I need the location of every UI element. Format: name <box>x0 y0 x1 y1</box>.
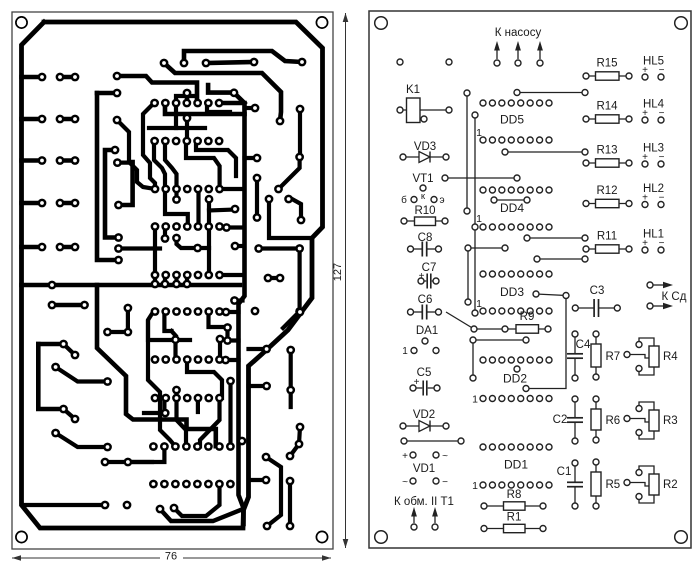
svg-text:+: + <box>402 451 408 462</box>
pad <box>172 307 181 316</box>
wire <box>421 280 426 282</box>
pad <box>222 223 231 232</box>
wire <box>446 312 474 329</box>
pad <box>172 394 181 403</box>
wire <box>629 419 649 423</box>
hole <box>593 503 599 509</box>
out arrow <box>653 305 663 307</box>
wire <box>298 249 302 312</box>
mounting hole <box>16 17 27 28</box>
wire <box>176 96 196 103</box>
diode VD3 <box>419 152 430 163</box>
pad <box>161 99 170 108</box>
hole <box>518 444 524 450</box>
pad <box>204 394 213 403</box>
pad <box>149 442 158 451</box>
wire <box>586 203 629 205</box>
hole <box>614 305 620 311</box>
mounting hole <box>316 531 327 542</box>
hole <box>470 375 476 381</box>
hole <box>434 385 440 391</box>
pad <box>262 453 271 462</box>
hole <box>527 224 533 230</box>
pad <box>215 222 224 231</box>
pad <box>204 480 213 489</box>
hole <box>626 246 632 252</box>
hole <box>636 494 642 500</box>
hole <box>546 444 552 450</box>
hole <box>537 396 543 402</box>
svg-text:C2: C2 <box>553 414 568 426</box>
wire <box>228 381 232 446</box>
pad <box>296 105 305 114</box>
hole <box>421 116 427 122</box>
hole <box>582 235 588 241</box>
svg-text:К Сд: К Сд <box>662 291 687 303</box>
hole <box>499 224 505 230</box>
out arrow <box>653 284 663 286</box>
pad <box>286 477 295 486</box>
pad <box>263 522 272 531</box>
pad <box>124 328 133 337</box>
wire <box>226 310 239 314</box>
hole <box>546 308 552 314</box>
svg-text:R7: R7 <box>606 351 621 363</box>
wire <box>292 199 301 220</box>
wire <box>174 103 178 128</box>
wire <box>108 308 128 332</box>
hole <box>436 309 442 315</box>
pad <box>276 117 285 126</box>
pad <box>71 351 80 360</box>
pad <box>274 185 283 194</box>
pad <box>56 156 65 165</box>
hole <box>433 452 439 458</box>
pad <box>262 476 271 485</box>
svg-text:C1: C1 <box>557 466 572 478</box>
pad <box>183 307 192 316</box>
hole <box>508 357 514 363</box>
hole <box>400 423 406 429</box>
hole <box>436 246 442 252</box>
pad <box>114 244 123 253</box>
pad <box>183 89 192 98</box>
wire <box>473 340 526 378</box>
pad <box>172 222 181 231</box>
wire <box>200 398 220 447</box>
hole <box>508 308 514 314</box>
hole <box>537 100 543 106</box>
pad <box>205 195 214 204</box>
hole <box>572 460 578 466</box>
pad <box>156 505 165 514</box>
hole <box>546 187 552 193</box>
wire <box>484 528 543 530</box>
pad <box>103 328 112 337</box>
wire <box>403 425 446 427</box>
wire <box>56 367 108 382</box>
pad <box>161 185 170 194</box>
svg-text:C8: C8 <box>418 232 433 244</box>
hole <box>642 117 648 123</box>
wire <box>249 384 267 388</box>
hole <box>572 503 578 509</box>
hole <box>537 224 543 230</box>
pad <box>38 243 47 252</box>
hole <box>636 366 642 372</box>
pad <box>171 335 180 344</box>
pad <box>111 146 120 155</box>
wire <box>505 151 585 153</box>
mounting hole <box>375 531 388 544</box>
hole <box>582 149 588 155</box>
pad <box>183 355 192 364</box>
wire <box>228 328 239 341</box>
pad <box>56 73 65 82</box>
wire <box>411 311 422 313</box>
hole <box>533 291 539 297</box>
wire <box>404 220 445 222</box>
svg-text:R6: R6 <box>606 415 621 427</box>
diode VD2 <box>419 421 430 432</box>
hole <box>527 308 533 314</box>
pad <box>295 307 304 316</box>
wire <box>60 75 75 80</box>
pad <box>182 99 191 108</box>
hole <box>658 117 664 123</box>
pad <box>161 307 170 316</box>
hole <box>410 478 416 484</box>
hole <box>636 406 642 412</box>
wire <box>64 344 76 355</box>
wire <box>162 398 166 413</box>
wire <box>574 334 576 353</box>
pad <box>251 307 260 316</box>
svg-text:DD5: DD5 <box>500 113 524 127</box>
pad <box>71 243 80 252</box>
wire <box>185 118 189 141</box>
hole <box>527 357 533 363</box>
pad <box>286 522 295 531</box>
pad <box>204 271 213 280</box>
hole <box>489 357 495 363</box>
hole <box>481 526 487 532</box>
pad <box>202 59 211 68</box>
pad <box>182 480 191 489</box>
pad <box>286 386 295 395</box>
hole <box>524 235 530 241</box>
svg-text:1: 1 <box>476 127 482 139</box>
pad <box>222 308 231 317</box>
pad <box>286 346 295 355</box>
svg-text:R2: R2 <box>663 479 678 491</box>
pad <box>215 442 224 451</box>
wire <box>288 481 292 526</box>
wire <box>575 307 593 309</box>
hole <box>410 385 416 391</box>
board drawing frame <box>12 12 333 549</box>
wire <box>165 141 177 189</box>
resistor R10 <box>415 217 436 226</box>
pad <box>204 222 213 231</box>
hole <box>593 331 599 337</box>
hole <box>518 100 524 106</box>
hole <box>508 100 514 106</box>
hole <box>527 396 533 402</box>
pad <box>114 233 123 242</box>
pad <box>183 280 192 289</box>
pad <box>262 345 271 354</box>
hole <box>546 137 552 143</box>
pad <box>151 280 160 289</box>
pad <box>182 442 191 451</box>
hole <box>546 357 552 363</box>
hole <box>514 366 520 372</box>
svg-text:б: б <box>401 194 407 206</box>
hole <box>480 137 486 143</box>
hole <box>489 187 495 193</box>
wire <box>163 227 167 239</box>
hole <box>624 352 630 358</box>
hole <box>480 444 486 450</box>
wire <box>177 398 187 446</box>
hole <box>489 482 495 488</box>
hole <box>593 374 599 380</box>
wire <box>289 350 293 407</box>
wire <box>639 402 654 410</box>
hole <box>502 149 508 155</box>
pad <box>231 205 240 214</box>
wire <box>119 246 161 250</box>
wire <box>38 342 63 347</box>
wire <box>117 120 155 189</box>
wire <box>466 93 468 211</box>
pad <box>160 59 169 68</box>
hole <box>420 185 426 191</box>
wire <box>255 178 259 218</box>
pad <box>215 185 224 194</box>
pad <box>151 307 160 316</box>
pad <box>161 222 170 231</box>
hole <box>514 175 520 181</box>
hole <box>499 308 505 314</box>
svg-text:1: 1 <box>476 298 482 310</box>
svg-text:127: 127 <box>332 263 344 281</box>
wire <box>586 118 629 120</box>
wire <box>22 283 241 288</box>
wire <box>574 359 576 378</box>
hole <box>480 187 486 193</box>
wire <box>467 248 469 302</box>
hole <box>472 310 478 316</box>
hole <box>499 357 505 363</box>
hole <box>472 112 478 118</box>
hole <box>400 154 406 160</box>
pad <box>194 355 203 364</box>
wire <box>184 51 302 63</box>
hole <box>491 197 497 203</box>
hole <box>499 482 505 488</box>
wire <box>22 75 43 80</box>
hole <box>480 271 486 277</box>
pad <box>171 442 180 451</box>
hole <box>636 470 642 476</box>
hole <box>524 197 530 203</box>
hole <box>583 73 589 79</box>
pad <box>215 271 224 280</box>
hole <box>472 224 478 230</box>
pad <box>215 480 224 489</box>
wire <box>22 158 43 163</box>
svg-text:DD4: DD4 <box>500 201 524 215</box>
hole <box>489 396 495 402</box>
pad <box>193 442 202 451</box>
pad <box>38 156 47 165</box>
svg-text:R4: R4 <box>663 351 678 363</box>
pad <box>151 185 160 194</box>
pad <box>161 234 170 243</box>
wire <box>154 141 165 189</box>
wire <box>639 495 654 503</box>
hole <box>593 396 599 402</box>
wire <box>268 276 280 280</box>
hole <box>480 396 486 402</box>
wire <box>269 199 312 238</box>
hole <box>527 444 533 450</box>
pad <box>38 73 47 82</box>
wire <box>209 312 228 328</box>
wire <box>143 103 155 189</box>
wire <box>174 275 178 284</box>
pad <box>113 158 122 167</box>
hole <box>433 478 439 484</box>
svg-text:R3: R3 <box>663 415 678 427</box>
pad <box>51 363 60 372</box>
hole <box>624 480 630 486</box>
wire <box>196 189 200 227</box>
wire <box>639 338 654 346</box>
pad <box>151 355 160 364</box>
pad <box>215 394 224 403</box>
wire <box>403 156 446 158</box>
pad <box>204 442 213 451</box>
wire <box>185 93 190 103</box>
wire <box>64 409 76 419</box>
pad <box>295 440 304 449</box>
hole <box>658 74 664 80</box>
hole <box>443 154 449 160</box>
hole <box>446 59 452 65</box>
svg-text:DD2: DD2 <box>503 372 527 386</box>
hole <box>514 90 520 96</box>
wire <box>468 247 505 249</box>
wire <box>153 275 157 284</box>
wire <box>209 210 235 211</box>
pad <box>265 195 274 204</box>
hole <box>411 524 417 530</box>
mounting hole <box>16 531 27 542</box>
svg-text:К насосу: К насосу <box>495 27 542 39</box>
mounting hole <box>675 531 688 544</box>
hole <box>480 482 486 488</box>
hole <box>508 444 514 450</box>
pad <box>226 480 235 489</box>
wire <box>220 273 242 277</box>
hole <box>636 342 642 348</box>
wire <box>290 427 300 456</box>
hole <box>537 60 543 66</box>
hole <box>583 201 589 207</box>
pad <box>230 296 239 305</box>
resistor R9 <box>516 325 539 334</box>
hole <box>397 107 403 113</box>
pad <box>194 185 203 194</box>
svg-text:R15: R15 <box>596 58 617 70</box>
wire <box>259 246 300 250</box>
svg-text:R8: R8 <box>507 489 522 501</box>
wire <box>105 150 119 238</box>
wire <box>427 248 438 250</box>
wire <box>245 156 258 160</box>
pad <box>172 386 181 395</box>
hole <box>515 60 521 66</box>
pad <box>149 480 158 489</box>
wire <box>595 334 597 377</box>
wire <box>163 275 167 284</box>
hole <box>537 271 543 277</box>
wire <box>117 76 197 99</box>
hole <box>523 386 529 392</box>
wire <box>413 387 422 389</box>
pad <box>183 222 192 231</box>
svg-text:R13: R13 <box>596 145 617 157</box>
hole <box>523 337 529 343</box>
svg-text:R14: R14 <box>596 101 618 113</box>
svg-text:~: ~ <box>442 451 448 462</box>
wire <box>574 463 576 482</box>
wire <box>52 303 85 308</box>
pad <box>161 394 170 403</box>
svg-text:−: − <box>442 477 448 488</box>
pad <box>51 429 60 438</box>
wire <box>174 189 178 200</box>
wire <box>153 227 157 276</box>
hole <box>572 331 578 337</box>
wire <box>172 331 176 336</box>
wire <box>234 93 245 103</box>
pad <box>160 480 169 489</box>
hole <box>471 326 477 332</box>
hole <box>465 245 471 251</box>
wire <box>484 505 543 507</box>
pad <box>151 271 160 280</box>
hole <box>465 299 471 305</box>
hole <box>499 100 505 106</box>
svg-text:VD1: VD1 <box>413 463 435 475</box>
svg-text:R5: R5 <box>606 479 621 491</box>
hole <box>443 423 449 429</box>
pad <box>276 274 285 283</box>
hole <box>508 137 514 143</box>
hole <box>489 308 495 314</box>
pump arrow <box>496 48 498 59</box>
hole <box>540 503 546 509</box>
pad <box>193 99 202 108</box>
wire <box>474 115 476 313</box>
wire <box>639 367 654 375</box>
pad <box>223 336 232 345</box>
hole <box>527 482 533 488</box>
